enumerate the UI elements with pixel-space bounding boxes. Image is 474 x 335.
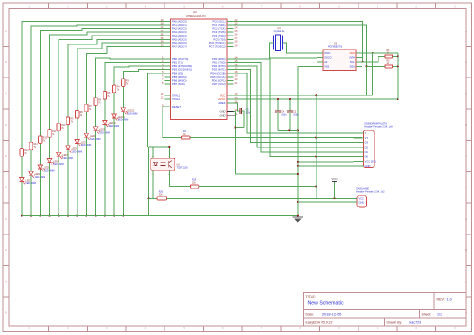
svg-text:7k: 7k xyxy=(89,109,92,111)
svg-text:PA3 (ADC3): PA3 (ADC3) xyxy=(172,30,187,34)
svg-text:PC5 (TDI): PC5 (TDI) xyxy=(213,37,225,41)
svg-text:PD6 (ICP1): PD6 (ICP1) xyxy=(212,79,226,83)
svg-text:LED12: LED12 xyxy=(127,111,135,113)
svg-text:INT#: INT# xyxy=(349,56,355,59)
svg-text:D1: D1 xyxy=(365,150,369,154)
svg-text:7k: 7k xyxy=(107,96,110,98)
svg-text:PB4 (SS): PB4 (SS) xyxy=(172,71,183,75)
svg-text:8: 8 xyxy=(162,81,164,85)
svg-text:R5: R5 xyxy=(107,93,111,95)
svg-text:R14: R14 xyxy=(24,150,29,152)
svg-text:VCC: VCC xyxy=(220,93,226,97)
svg-text:B: B xyxy=(5,60,7,64)
svg-text:2018-12-05: 2018-12-05 xyxy=(322,312,341,316)
svg-text:PA5 (ADC5): PA5 (ADC5) xyxy=(172,37,187,41)
svg-text:100n: 100n xyxy=(281,114,287,117)
svg-text:PB0 (XCKT0): PB0 (XCKT0) xyxy=(172,57,188,61)
svg-text:Header-Female 2.54, 1x2: Header-Female 2.54, 1x2 xyxy=(356,191,385,194)
svg-text:OSCI: OSCI xyxy=(324,52,330,55)
svg-text:TITLE:: TITLE: xyxy=(306,295,316,299)
svg-text:PB1 (T1): PB1 (T1) xyxy=(172,61,183,65)
svg-text:D: D xyxy=(465,123,467,127)
svg-text:PD5 (OC1A): PD5 (OC1A) xyxy=(210,75,225,79)
svg-text:7: 7 xyxy=(162,77,164,81)
svg-text:VCC (5V): VCC (5V) xyxy=(365,159,376,163)
svg-text:VT: VT xyxy=(365,136,369,140)
svg-text:7k: 7k xyxy=(98,102,101,104)
svg-text:R3: R3 xyxy=(126,80,130,82)
svg-text:D: D xyxy=(5,123,7,127)
svg-text:PD2 (INT0): PD2 (INT0) xyxy=(212,64,226,68)
svg-text:R7: R7 xyxy=(89,106,93,108)
svg-text:R12: R12 xyxy=(43,138,48,140)
svg-text:H: H xyxy=(5,248,7,252)
svg-text:SDA: SDA xyxy=(350,65,355,68)
svg-text:PB7 (SCK): PB7 (SCK) xyxy=(172,82,185,86)
svg-text:PA7 (ADC7): PA7 (ADC7) xyxy=(172,45,187,49)
svg-text:R4: R4 xyxy=(183,131,187,133)
svg-text:E: E xyxy=(5,154,7,158)
svg-text:GND: GND xyxy=(220,113,226,117)
svg-text:D3: D3 xyxy=(365,141,369,145)
svg-text:PD0 (RXD): PD0 (RXD) xyxy=(212,57,226,61)
svg-text:26: 26 xyxy=(235,33,238,37)
svg-text:EasyEDA V5.9.22: EasyEDA V5.9.22 xyxy=(306,320,333,324)
svg-text:XTAL1: XTAL1 xyxy=(172,93,181,97)
svg-text:Sheet:: Sheet: xyxy=(422,312,432,316)
svg-text:PC7 (TOSC2): PC7 (TOSC2) xyxy=(209,45,226,49)
svg-text:PB3 (OC0/AIN1): PB3 (OC0/AIN1) xyxy=(172,68,192,72)
svg-text:PC3 (TMS): PC3 (TMS) xyxy=(212,30,226,34)
svg-text:Drawn By:: Drawn By: xyxy=(387,320,403,324)
svg-text:7k: 7k xyxy=(117,90,120,92)
svg-text:PC4 (TDO): PC4 (TDO) xyxy=(212,34,226,38)
svg-text:New Schematic: New Schematic xyxy=(308,301,344,307)
svg-text:AREF: AREF xyxy=(218,101,226,105)
svg-text:7k: 7k xyxy=(24,153,27,155)
svg-text:REV:: REV: xyxy=(437,298,445,302)
svg-text:7k: 7k xyxy=(80,115,83,117)
svg-text:1/1: 1/1 xyxy=(437,312,442,316)
svg-text:R8: R8 xyxy=(80,112,84,114)
svg-text:20: 20 xyxy=(235,77,238,81)
svg-text:GND: GND xyxy=(365,164,371,168)
svg-text:SCL: SCL xyxy=(350,61,355,64)
svg-text:R10: R10 xyxy=(61,125,66,127)
svg-text:F: F xyxy=(5,186,7,190)
svg-text:7k: 7k xyxy=(126,83,129,85)
svg-text:R4: R4 xyxy=(117,87,121,89)
svg-text:kac723: kac723 xyxy=(410,320,422,324)
svg-text:A: A xyxy=(5,279,7,283)
svg-text:PB2 (INT2/AIN0): PB2 (INT2/AIN0) xyxy=(172,64,192,68)
svg-text:ATMEGA16A-PU: ATMEGA16A-PU xyxy=(186,14,206,18)
svg-text:A: A xyxy=(465,29,467,33)
svg-text:E: E xyxy=(465,154,467,158)
svg-text:R6: R6 xyxy=(98,99,102,101)
svg-text:12: 12 xyxy=(161,96,164,100)
svg-text:7k: 7k xyxy=(61,128,64,130)
svg-text:R6: R6 xyxy=(387,50,391,52)
svg-text:PD1 (TXD): PD1 (TXD) xyxy=(212,61,225,65)
svg-text:PC1 (SDA): PC1 (SDA) xyxy=(212,23,225,27)
svg-text:VCC: VCC xyxy=(331,177,338,181)
svg-text:PB6 (MISO): PB6 (MISO) xyxy=(172,79,187,83)
svg-text:R9: R9 xyxy=(71,119,75,121)
svg-text:U2: U2 xyxy=(193,10,197,14)
svg-text:D2: D2 xyxy=(365,145,369,149)
svg-text:29: 29 xyxy=(235,43,238,47)
svg-text:7k: 7k xyxy=(71,122,74,124)
svg-text:PC0 (SCL): PC0 (SCL) xyxy=(213,19,226,23)
svg-text:25: 25 xyxy=(235,29,238,33)
svg-text:27: 27 xyxy=(235,36,238,40)
svg-text:6: 6 xyxy=(162,74,164,78)
svg-text:PA1 (ADC1): PA1 (ADC1) xyxy=(172,23,187,27)
svg-text:R19: R19 xyxy=(192,180,197,182)
svg-text:G: G xyxy=(465,217,467,221)
svg-text:VSS: VSS xyxy=(324,65,329,68)
svg-text:GND: GND xyxy=(220,110,226,114)
svg-text:AVCC: AVCC xyxy=(218,97,225,101)
svg-text:A: A xyxy=(465,279,467,283)
svg-text:VDD: VDD xyxy=(350,52,355,55)
svg-text:PA0 (ADC0): PA0 (ADC0) xyxy=(172,19,187,23)
svg-text:28: 28 xyxy=(235,40,238,44)
svg-text:7k: 7k xyxy=(43,141,46,143)
svg-text:GND: GND xyxy=(359,201,365,204)
svg-text:PA4 (ADC4): PA4 (ADC4) xyxy=(172,34,187,38)
svg-text:1.0: 1.0 xyxy=(447,298,452,302)
svg-text:PD7 (OC2): PD7 (OC2) xyxy=(212,82,225,86)
svg-text:OSCO: OSCO xyxy=(324,56,331,59)
svg-text:PB5 (MOSI): PB5 (MOSI) xyxy=(172,75,187,79)
svg-text:B: B xyxy=(5,311,7,315)
svg-text:Header-Female 2.54, 1x8: Header-Female 2.54, 1x8 xyxy=(364,125,393,128)
svg-text:PD3 (INT1): PD3 (INT1) xyxy=(212,68,226,72)
svg-text:Date:: Date: xyxy=(306,312,315,316)
svg-text:PA6 (ADC6): PA6 (ADC6) xyxy=(172,41,187,45)
svg-text:22k: 22k xyxy=(159,194,164,196)
svg-text:H: H xyxy=(465,248,467,252)
svg-text:R5: R5 xyxy=(387,60,391,62)
svg-text:A: A xyxy=(5,29,7,33)
svg-text:PD4 (OC1B): PD4 (OC1B) xyxy=(210,71,225,75)
svg-text:C: C xyxy=(465,92,467,96)
svg-text:LED11: LED11 xyxy=(118,117,126,119)
svg-text:G: G xyxy=(5,217,7,221)
svg-text:B: B xyxy=(465,60,467,64)
svg-text:VCC: VCC xyxy=(359,198,364,201)
svg-text:TC8T1103: TC8T1103 xyxy=(177,167,189,170)
svg-text:R13: R13 xyxy=(34,144,39,146)
svg-text:R20: R20 xyxy=(159,191,164,193)
svg-text:D0: D0 xyxy=(365,155,369,159)
svg-text:22k: 22k xyxy=(192,183,197,185)
svg-text:PC6 (TOSC1): PC6 (TOSC1) xyxy=(209,41,226,45)
svg-text:C: C xyxy=(5,92,7,96)
svg-text:Crystal de: Crystal de xyxy=(274,30,285,33)
svg-text:100n: 100n xyxy=(293,114,299,117)
svg-text:PA2 (ADC2): PA2 (ADC2) xyxy=(172,27,187,31)
svg-text:24: 24 xyxy=(235,25,238,29)
svg-text:7k: 7k xyxy=(52,134,55,136)
svg-text:RESET: RESET xyxy=(172,105,181,109)
svg-text:19: 19 xyxy=(235,74,238,78)
svg-text:R11: R11 xyxy=(52,131,57,133)
svg-text:LED-5MM: LED-5MM xyxy=(127,113,137,115)
svg-text:PC2 (TCK): PC2 (TCK) xyxy=(212,27,225,31)
svg-text:F: F xyxy=(465,186,467,190)
svg-text:PCF8583T/3: PCF8583T/3 xyxy=(328,45,343,48)
svg-text:21: 21 xyxy=(235,81,238,85)
svg-text:7k: 7k xyxy=(34,147,37,149)
svg-text:LED10: LED10 xyxy=(109,123,117,125)
svg-text:XTAL2: XTAL2 xyxy=(172,97,181,101)
svg-text:13: 13 xyxy=(161,92,164,96)
